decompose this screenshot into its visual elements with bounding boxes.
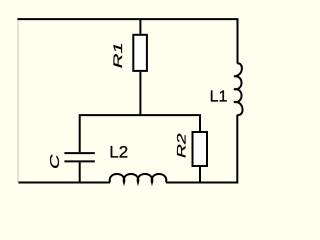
svg-text:R2: R2 — [176, 133, 189, 158]
svg-text:L2: L2 — [109, 142, 128, 161]
svg-text:C: C — [48, 153, 62, 169]
svg-text:L1: L1 — [210, 89, 228, 106]
svg-text:R1: R1 — [111, 42, 125, 68]
